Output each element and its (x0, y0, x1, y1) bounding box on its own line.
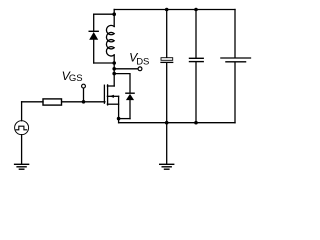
wire: down to pulse source (21, 102, 23, 121)
wire: VGS terminal stub (83, 88, 85, 102)
node: drain junction with body-diode stub (112, 72, 116, 76)
wire: source node link to body diode (119, 118, 130, 120)
diode D (freewheeling) (89, 31, 98, 39)
wire: ground stem below C1 (166, 123, 168, 164)
node: drain junction with VDS stub (112, 67, 116, 71)
node: C1 top rail junction (165, 8, 169, 12)
node: drain junction with loop bottom (112, 61, 116, 65)
wire: body diode bottom lead (129, 100, 131, 119)
wire: top of freewheel loop (94, 13, 115, 15)
battery VDD (221, 58, 251, 62)
capacitor C2 (190, 58, 204, 61)
wire: pulse source to ground (21, 135, 23, 164)
wire: drain vertical lower (113, 55, 115, 86)
label VGS (62, 69, 83, 84)
svg-text:GS: GS (69, 73, 83, 84)
node: C2 bottom rail junction (194, 121, 198, 125)
ground (left) (15, 164, 29, 169)
node: source junction (117, 117, 121, 121)
label VDS (129, 51, 149, 68)
wire: top supply rail (114, 9, 235, 11)
capacitor C1 (electrolytic) (161, 58, 173, 63)
svg-text:DS: DS (136, 56, 149, 67)
wire: pulse source to resistor (22, 101, 43, 103)
wire: capacitor C1 branch top (166, 10, 168, 58)
wire: gate wire from resistor to gate (62, 101, 105, 103)
wire: freewheel diode branch upper lead (93, 14, 95, 31)
wire: capacitor C2 branch top (195, 10, 197, 58)
wire: freewheel diode branch lower lead (93, 40, 95, 63)
wire: battery branch top (234, 10, 236, 58)
resistor RG (43, 99, 62, 105)
ground (right) (160, 164, 174, 169)
wire: battery branch bottom (234, 63, 236, 123)
node: C1 bottom rail junction (165, 121, 169, 125)
wire: VDS measurement stub (114, 68, 138, 70)
node VDS terminal (open circle) (138, 67, 142, 71)
wire: capacitor C2 branch bottom (195, 62, 197, 122)
wire: drain vertical upper (113, 10, 115, 27)
pulse generator source (15, 121, 29, 135)
node: gate junction with VGS stub (82, 100, 86, 104)
node: C2 top rail junction (194, 8, 198, 12)
inductor L (load) (106, 25, 114, 56)
wire: bottom of freewheel loop (94, 62, 115, 64)
wire: body diode top lead (114, 74, 130, 93)
wire: bottom rail (119, 122, 235, 124)
node VGS terminal (open circle) (82, 84, 86, 88)
wire: capacitor C1 branch bottom (166, 63, 168, 123)
transistor Q1 (DUT MOSFET) (104, 85, 118, 105)
body diode of Q1 (126, 93, 134, 100)
wire: source vertical (118, 96, 120, 122)
node: inductor top junction (112, 12, 116, 16)
